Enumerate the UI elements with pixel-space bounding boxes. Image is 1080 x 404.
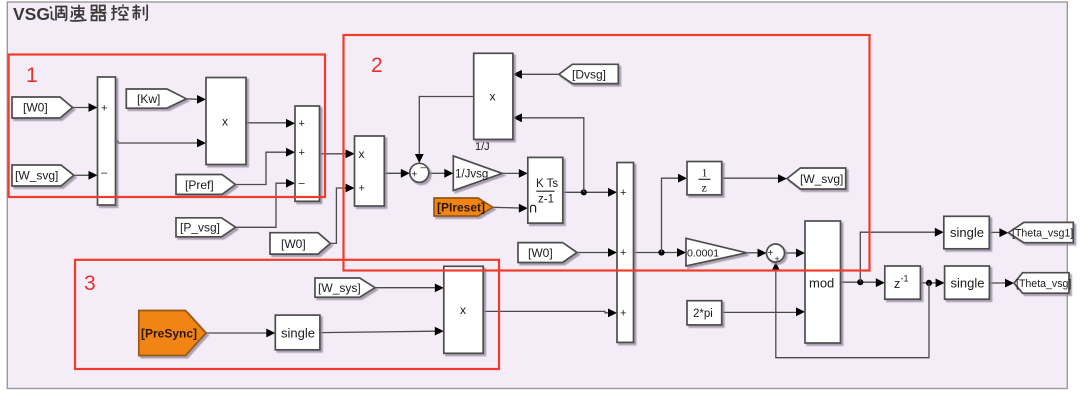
svg-text:single: single	[951, 276, 985, 291]
svg-text:–: –	[299, 178, 306, 190]
svg-text:[PIreset]: [PIreset]	[437, 201, 485, 215]
svg-text:[PreSync]: [PreSync]	[141, 327, 197, 341]
svg-text:2: 2	[371, 54, 383, 77]
svg-text:+: +	[299, 147, 305, 159]
svg-text:VSG: VSG	[13, 4, 50, 24]
wire single2 to Theta_vsg goto	[989, 282, 1005, 284]
gain Gain2 0.0001	[686, 238, 747, 266]
wire Product3 to Sum3 port3	[483, 311, 608, 312]
svg-text:[P_vsg]: [P_vsg]	[180, 221, 220, 235]
red region box 2	[344, 35, 870, 271]
wire W0b to Product2 in2	[330, 188, 345, 243]
wire P_vsg to Sum2 port3	[236, 183, 286, 227]
goto tag PIreset (orange)	[434, 198, 493, 216]
goto tag W_svg	[787, 168, 846, 189]
wire Integrator out to Sum3 port1	[563, 191, 609, 193]
svg-text:+: +	[299, 118, 305, 130]
wire Gain1 to Integrator in1	[502, 172, 519, 174]
wire Kw to Product1 in1	[186, 98, 197, 101]
wire 1z to W_svg goto	[722, 177, 778, 179]
from tag W0	[12, 97, 73, 118]
svg-text:+: +	[101, 103, 107, 115]
from tag Pref	[176, 175, 235, 195]
wire W_svg to Sum1	[74, 174, 89, 176]
wire feedback loop to SumC2 bottom	[776, 271, 929, 358]
svg-text:–: –	[421, 163, 427, 174]
svg-text:+: +	[775, 254, 780, 264]
single block region3	[275, 315, 320, 350]
wire branch up to UnitDelay1z	[662, 178, 679, 252]
from tag W_sys	[315, 278, 375, 297]
svg-text:[W_svg]: [W_svg]	[800, 172, 843, 186]
sum block Sum1	[98, 77, 116, 205]
junction integrator-out	[581, 189, 587, 195]
wire mod out to UnitDelay	[841, 281, 877, 283]
svg-text:x: x	[490, 90, 496, 104]
svg-text:[Dvsg]: [Dvsg]	[572, 68, 606, 82]
wire 2pi to mod in2	[722, 311, 797, 313]
wire branch up to single1	[860, 232, 935, 282]
svg-text:+: +	[620, 308, 626, 320]
integrator block KTs/z-1	[528, 157, 563, 223]
from tag W0b	[270, 233, 330, 254]
from tag P_vsg	[176, 218, 236, 237]
unit delay 1/z	[687, 162, 722, 195]
svg-text:z: z	[702, 181, 707, 195]
wire PIreset to Integrator in2	[493, 206, 519, 209]
wire Dvsg to ProdJ in1	[522, 73, 559, 75]
svg-text:-1: -1	[901, 274, 909, 284]
mod block	[805, 221, 841, 343]
from tag W0c	[518, 243, 577, 263]
svg-text:x: x	[222, 115, 228, 129]
svg-text:[Theta_vsg]: [Theta_vsg]	[1016, 278, 1071, 290]
wire PreSync to single3	[206, 332, 267, 334]
constant 2*pi	[687, 301, 722, 325]
unit delay z-1 block	[885, 266, 921, 299]
svg-text:–: –	[101, 167, 108, 179]
gain Gain1 1/Jvsg	[453, 156, 502, 191]
product block Product3	[444, 266, 483, 353]
title CJK 调速器控制 (stroke-drawn)	[50, 5, 147, 21]
wire Sum1 to Product1 in2	[116, 141, 198, 143]
product block Product1	[206, 78, 246, 165]
svg-text:x: x	[460, 303, 466, 317]
from tag W_svg	[12, 165, 74, 186]
svg-text:[W_sys]: [W_sys]	[318, 281, 361, 295]
svg-text:1: 1	[26, 64, 38, 87]
sum circle SumC1	[410, 163, 429, 182]
from tag Kw	[126, 89, 186, 108]
integrator pulse glyph	[531, 205, 536, 212]
svg-text:z: z	[894, 277, 900, 291]
wire single3 to Product3 in2	[320, 331, 435, 332]
wire Product1 to Sum2 port1	[246, 122, 286, 124]
goto tag PreSync (orange large)	[139, 311, 206, 356]
wire ProdJ out down to SumC1 top	[419, 97, 473, 155]
from tag Dvsg (mirrored)	[559, 64, 618, 83]
svg-text:single: single	[950, 225, 984, 240]
svg-text:0.0001: 0.0001	[687, 248, 719, 260]
wire Sum2 to Product2 in1	[320, 153, 346, 155]
wire W_sys to Product3 in1	[375, 287, 435, 289]
svg-text:K Ts: K Ts	[536, 178, 558, 190]
junction delay-out	[926, 280, 932, 286]
svg-text:z-1: z-1	[538, 194, 554, 206]
red region box 1	[9, 55, 325, 198]
sum block Sum3	[617, 163, 634, 343]
svg-text:[W0]: [W0]	[23, 101, 48, 115]
wire feedback up to ProdJ in2	[522, 118, 584, 193]
wire UnitDelay to single2	[920, 282, 936, 284]
product block ProdJ (mirrored)	[474, 53, 513, 139]
svg-text:3: 3	[84, 272, 96, 295]
svg-text:+: +	[359, 183, 365, 195]
wire Sum3 out to Gain2	[634, 252, 678, 254]
sum block Sum2	[295, 106, 320, 201]
red region box 3	[75, 260, 499, 369]
wire SumC1 to Gain1	[429, 172, 445, 174]
wire Pref to Sum2 port2	[235, 152, 286, 184]
wire Product2 to SumC1	[384, 172, 401, 174]
svg-text:[Pref]: [Pref]	[185, 178, 214, 192]
svg-text:x: x	[359, 147, 365, 161]
svg-text:1/Jvsg: 1/Jvsg	[455, 169, 488, 181]
sum circle SumC2	[767, 244, 785, 262]
goto tag Theta_vsg	[1014, 273, 1069, 294]
svg-text:+: +	[620, 247, 626, 259]
svg-text:[W0]: [W0]	[528, 246, 553, 260]
svg-text:1: 1	[702, 166, 708, 180]
svg-text:+: +	[620, 187, 626, 199]
svg-text:[W_svg]: [W_svg]	[15, 169, 58, 183]
svg-text:[W0]: [W0]	[281, 237, 306, 251]
svg-text:2*pi: 2*pi	[693, 308, 713, 320]
junction sum3-out	[658, 249, 664, 255]
wire W0 to Sum1	[73, 107, 90, 109]
single block upper	[944, 216, 990, 249]
wire Gain2 to SumC2	[747, 252, 758, 254]
wire SumC2 to mod in1	[785, 252, 797, 254]
junction mod-out	[857, 279, 863, 285]
svg-text:[Kw]: [Kw]	[137, 92, 160, 106]
wire W0c to Sum3 port2	[577, 252, 608, 254]
svg-text:+: +	[768, 248, 774, 259]
goto tag Theta_vsg1	[1008, 222, 1073, 242]
svg-text:1/J: 1/J	[475, 141, 490, 153]
product block Product2	[355, 136, 385, 206]
svg-text:[Theta_vsg1]: [Theta_vsg1]	[1012, 228, 1073, 240]
single block lower	[945, 266, 990, 299]
svg-text:+: +	[412, 170, 418, 181]
wire single1 to Theta_vsg1 goto	[989, 231, 999, 233]
svg-text:single: single	[281, 326, 315, 341]
svg-text:mod: mod	[809, 276, 834, 291]
